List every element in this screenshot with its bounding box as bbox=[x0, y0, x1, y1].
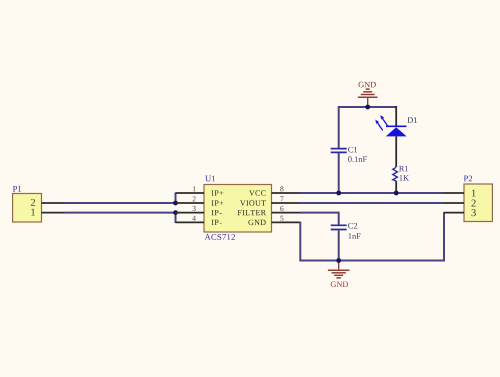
P1 pin 1 bbox=[42, 212, 65, 214]
C2 refdes label bbox=[348, 223, 357, 229]
U1 refdes label bbox=[205, 176, 215, 182]
U1 pin 7 VIOUT bbox=[240, 196, 300, 205]
connector P1 bbox=[13, 194, 42, 223]
P1 pin 1 number bbox=[31, 209, 35, 216]
LED D1 bbox=[386, 126, 407, 136]
connector P2 bbox=[464, 184, 492, 222]
P2 pin 2 bbox=[443, 202, 464, 204]
D1 pin top bbox=[395, 106, 397, 126]
IC U1 body bbox=[204, 185, 272, 233]
capacitor C2 bbox=[331, 225, 347, 229]
R1 pin bottom bbox=[395, 181, 397, 193]
wire FILTER net U1.6 to C2 bbox=[300, 213, 339, 225]
U1 pin 6 FILTER bbox=[238, 206, 300, 215]
P2 pin 3 bbox=[444, 212, 465, 214]
U1 pin 4 IP- bbox=[176, 216, 222, 225]
P2 pin 2 number bbox=[471, 200, 475, 207]
U1 pin 5 GND bbox=[248, 216, 300, 225]
P2 pin 1 number bbox=[472, 190, 476, 197]
wire C2 bottom vertical bbox=[338, 230, 340, 260]
wire C1 bottom vertical bbox=[338, 153, 340, 193]
wire P1.1 to U1.3 bbox=[65, 212, 176, 214]
junction C1 / VCC rail bbox=[336, 191, 341, 196]
wire vertical to U1.1 bbox=[175, 193, 177, 203]
wire P1.2 to U1.2 bbox=[65, 202, 176, 204]
junction C2 / bottom GND rail bbox=[336, 258, 341, 263]
C1 refdes label bbox=[348, 147, 357, 153]
wire GND net U1.5 to P2.3 bbox=[300, 213, 444, 261]
wire top GND rail bbox=[339, 106, 397, 108]
D1 emission arrows bbox=[375, 115, 387, 130]
U1 pin 8 VCC bbox=[249, 186, 300, 195]
ground (top) bbox=[358, 82, 378, 107]
U1 pin 1 IP+ bbox=[176, 186, 224, 195]
wire C1 top vertical bbox=[338, 106, 340, 148]
P2 refdes label bbox=[464, 176, 472, 182]
P1 pin 2 bbox=[42, 202, 65, 204]
wire VIOUT net U1.7 to P2.2 bbox=[300, 202, 443, 204]
junction top rail / GND stem bbox=[365, 105, 370, 110]
junction at U1 pin3 bbox=[173, 210, 178, 215]
capacitor C1 bbox=[331, 149, 347, 153]
resistor R1 bbox=[393, 167, 398, 181]
P1 pin 2 number bbox=[31, 199, 35, 206]
P2 pin 1 bbox=[443, 192, 464, 194]
wire vertical to U1.4 bbox=[175, 213, 177, 223]
R1 value 1K bbox=[400, 175, 409, 181]
D1 pin bottom bbox=[395, 136, 397, 167]
P1 refdes label bbox=[13, 186, 21, 192]
junction R1 / VCC rail bbox=[394, 191, 399, 196]
U1 pin 2 IP+ bbox=[176, 196, 224, 205]
C1 value 0.1nF bbox=[348, 156, 367, 162]
R1 refdes label bbox=[399, 166, 408, 172]
U1 pin 3 IP- bbox=[176, 206, 222, 215]
D1 refdes label bbox=[408, 117, 417, 122]
junction at U1 pin2 bbox=[173, 201, 178, 206]
U1 part number ACS712 bbox=[205, 234, 235, 240]
C2 value 1nF bbox=[349, 233, 361, 239]
P2 pin 3 number bbox=[472, 209, 476, 216]
ground (bottom) bbox=[328, 261, 350, 288]
wire VCC net U1.8 to P2.1 bbox=[300, 192, 443, 194]
